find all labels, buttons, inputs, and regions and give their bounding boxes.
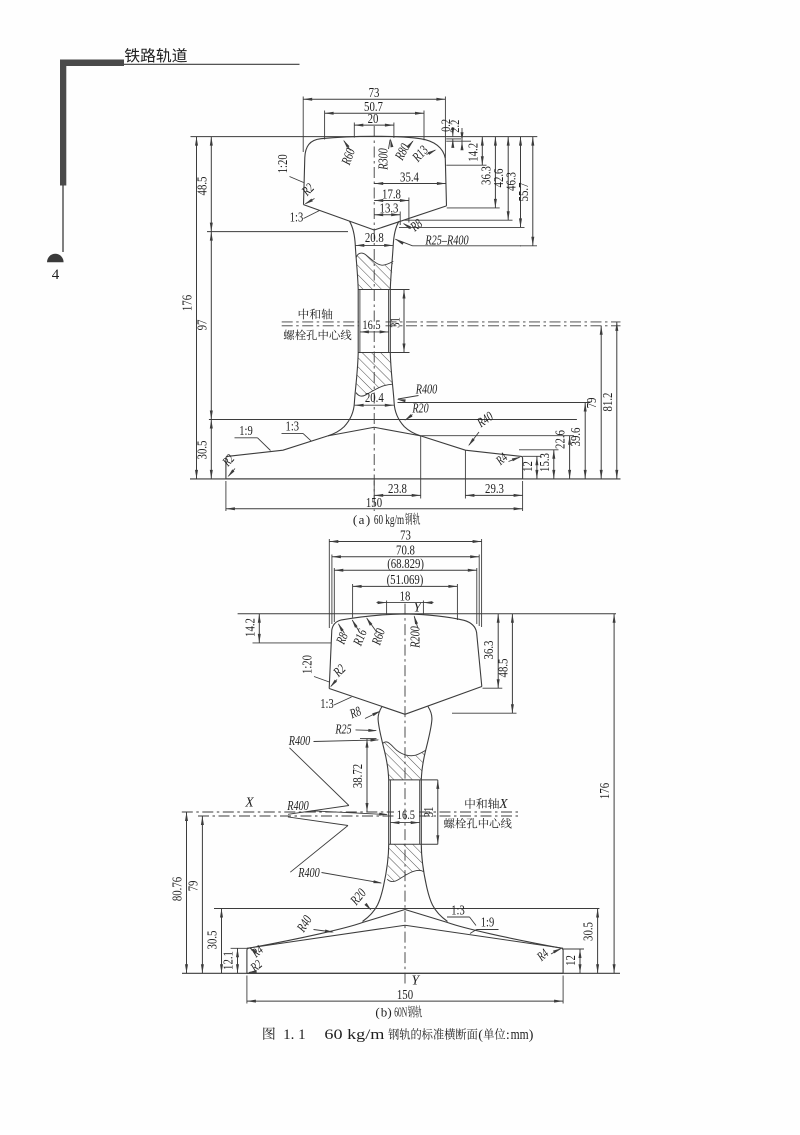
- dim a-39.6: [398, 402, 591, 404]
- svg-text:55.7: 55.7: [516, 182, 531, 201]
- header rule: [124, 63, 300, 65]
- svg-text:(: (: [478, 1028, 483, 1043]
- svg-text:79: 79: [185, 880, 200, 891]
- svg-text:1:3: 1:3: [290, 209, 304, 224]
- svg-text:150: 150: [397, 987, 413, 1002]
- rail-b foot 1:9 construction lines: [247, 925, 405, 948]
- dim b-79: [201, 816, 203, 973]
- svg-text:97: 97: [194, 319, 209, 330]
- svg-text:1:3: 1:3: [286, 419, 300, 434]
- svg-text:16.5: 16.5: [362, 317, 380, 332]
- svg-text:(: (: [353, 512, 357, 527]
- label 螺栓孔中心线 (b): [444, 818, 455, 828]
- rail-b bolt section inner verticals: [389, 780, 391, 844]
- svg-text:81.2: 81.2: [600, 393, 615, 412]
- svg-text:R25: R25: [335, 721, 352, 736]
- rail-a bolt section inner verticals: [359, 290, 361, 353]
- rail-a head-bottom reference line 48.5/97: [207, 231, 348, 233]
- svg-text::: :: [506, 1028, 510, 1043]
- rail-a head outline: [304, 136, 447, 206]
- dim a-15.3: [519, 449, 559, 451]
- dim b-73: [328, 539, 330, 628]
- dim b-18: [386, 601, 388, 615]
- svg-text:a: a: [359, 512, 365, 527]
- dim a-79: [600, 326, 602, 479]
- rail-b foot-top 30.5 reference line: [214, 908, 599, 910]
- dim a-81.2: [616, 322, 618, 479]
- svg-text:60 kg/m: 60 kg/m: [324, 1027, 384, 1043]
- rail-a bolt section chords: [358, 289, 409, 291]
- svg-text:30.5: 30.5: [205, 930, 220, 949]
- svg-text:18: 18: [400, 588, 411, 603]
- dim a-20.4: [355, 404, 394, 406]
- rail-a foot-top 30.5 reference line: [209, 419, 577, 421]
- rail-a top reference line: [191, 136, 538, 138]
- svg-text:(51.069): (51.069): [387, 572, 424, 587]
- dim a-14.2: [446, 164, 486, 166]
- svg-text:80.76: 80.76: [170, 877, 185, 902]
- svg-text:30.5: 30.5: [581, 922, 596, 941]
- svg-text:12: 12: [520, 461, 535, 472]
- rail-a lower hatch section: [356, 353, 393, 397]
- dim a-73: [302, 97, 304, 153]
- svg-text:X: X: [244, 795, 254, 810]
- header bar: [60, 60, 124, 67]
- dim a-22.6: [421, 435, 574, 437]
- figure caption 图1.1: [263, 1027, 275, 1040]
- header title 铁路轨道: [125, 48, 140, 62]
- rail-b bolt section chords: [389, 779, 438, 781]
- R400 zigzag connector lower: [288, 817, 348, 826]
- svg-text:23.8: 23.8: [388, 481, 407, 496]
- svg-text:48.5: 48.5: [495, 658, 510, 677]
- dim a-48.5: [210, 137, 212, 232]
- dim a-176: [196, 137, 198, 479]
- svg-text:R200: R200: [407, 626, 422, 649]
- dim b-12 right: [562, 948, 584, 950]
- rail-b upper hatch section: [383, 742, 426, 780]
- rail-b lower hatch section: [387, 844, 423, 881]
- svg-text:1:20: 1:20: [300, 655, 315, 674]
- rail-a foot apex construction lines 1:3: [328, 427, 374, 436]
- svg-text:R400: R400: [415, 382, 438, 397]
- rail-a head lower jaw lines 1:3: [304, 205, 375, 230]
- rail-b head outline: [329, 614, 482, 689]
- svg-text:X: X: [498, 796, 508, 811]
- svg-text:73: 73: [369, 85, 380, 100]
- rail-b web left edge: [363, 707, 389, 922]
- rail-b foot surface left: [247, 910, 405, 974]
- rail-b web right edge: [421, 707, 447, 922]
- dim a-0.2: [446, 138, 461, 140]
- header rule vertical thin: [62, 185, 64, 252]
- svg-text:R400: R400: [286, 798, 309, 813]
- svg-text:1:3: 1:3: [451, 903, 465, 918]
- svg-text:176: 176: [597, 783, 612, 799]
- svg-text:31: 31: [421, 807, 436, 818]
- dim a-20.8: [355, 244, 393, 246]
- rail-a web right edge: [390, 221, 420, 436]
- rail-a neutral axis centerline 中和轴: [282, 321, 359, 323]
- dim a-35.4: [374, 183, 446, 185]
- dim a-12: [523, 455, 542, 457]
- svg-text:30.5: 30.5: [194, 440, 209, 459]
- rail-a bolt hole centerline 螺栓孔中心线: [282, 325, 359, 327]
- label 螺栓孔中心线 (a): [284, 330, 295, 340]
- rail-b bottom reference line: [182, 972, 620, 974]
- dim b-176: [613, 614, 615, 974]
- dim b-150: [246, 976, 248, 1004]
- dim b-80.76: [186, 812, 188, 973]
- dim b-12.1: [231, 947, 249, 949]
- svg-text:1:9: 1:9: [481, 915, 495, 930]
- svg-text:15.3: 15.3: [537, 453, 552, 472]
- svg-text:14.2: 14.2: [242, 618, 257, 637]
- svg-text:12.1: 12.1: [221, 951, 236, 970]
- svg-text:13.3: 13.3: [380, 201, 399, 216]
- svg-text:22.6: 22.6: [553, 430, 568, 449]
- dim a-97: [210, 232, 212, 420]
- svg-text:b: b: [381, 1005, 388, 1020]
- rail-a web left edge: [328, 221, 358, 436]
- rail-b bolt hole centerline: [198, 815, 394, 817]
- svg-text:29.3: 29.3: [485, 481, 504, 496]
- svg-text:1:20: 1:20: [275, 154, 290, 173]
- dim a-23.8: [420, 436, 422, 499]
- dim b-(68.829): [333, 568, 335, 622]
- dim b-30.5 right: [597, 909, 599, 974]
- rail-a foot outline: [226, 436, 523, 479]
- dim a-2.2: [446, 140, 471, 142]
- svg-text:20.4: 20.4: [365, 390, 384, 405]
- dim a-55.7: [520, 245, 537, 247]
- rail-b neutral axis centerline X-X: [182, 811, 394, 813]
- rail-b head lower jaw lines 1:3: [329, 689, 405, 715]
- dim a-13.3: [399, 212, 401, 226]
- svg-text:36.3: 36.3: [481, 640, 496, 659]
- R400 zigzag connector upper: [290, 748, 349, 806]
- svg-text:R25–R400: R25–R400: [425, 232, 469, 247]
- svg-text:1:3: 1:3: [320, 696, 334, 711]
- dim b-38.72: [360, 738, 377, 740]
- svg-text:14.2: 14.2: [465, 143, 480, 162]
- dim b-31: [437, 780, 439, 844]
- svg-text:20.8: 20.8: [365, 230, 384, 245]
- svg-text:31: 31: [388, 317, 403, 328]
- dim a-30.5: [210, 420, 212, 479]
- svg-text:48.5: 48.5: [194, 176, 209, 195]
- svg-text:20: 20: [368, 111, 379, 126]
- svg-text:79: 79: [584, 397, 599, 408]
- dim a-31: [403, 290, 405, 353]
- svg-text:1:9: 1:9: [239, 423, 253, 438]
- svg-text:16.5: 16.5: [397, 807, 415, 822]
- svg-text:60N: 60N: [394, 1005, 407, 1020]
- dim a-42.6: [404, 219, 513, 221]
- rail-a bottom reference line: [190, 478, 621, 480]
- svg-text:176: 176: [180, 295, 195, 311]
- dim b-14.2: [253, 642, 332, 644]
- svg-text:35.4: 35.4: [400, 169, 419, 184]
- svg-text:R400: R400: [288, 733, 311, 748]
- dim a-150: [225, 481, 227, 511]
- dim b-(51.069): [352, 584, 354, 618]
- svg-text:): ): [366, 512, 370, 527]
- svg-text:2.2: 2.2: [447, 120, 462, 133]
- svg-text:60 kg/m: 60 kg/m: [374, 512, 405, 527]
- svg-text:mm: mm: [511, 1027, 529, 1043]
- dim a-20: [353, 123, 355, 138]
- dim a-17.8: [408, 198, 410, 223]
- page-number bullet: [47, 254, 64, 263]
- label 中和轴 (a): [299, 309, 309, 320]
- svg-text:R400: R400: [297, 865, 320, 880]
- svg-text:39.6: 39.6: [568, 427, 583, 446]
- svg-text:1. 1: 1. 1: [283, 1027, 306, 1043]
- dim a-50.7: [324, 111, 326, 140]
- svg-text:): ): [387, 1005, 391, 1020]
- svg-text:(: (: [375, 1005, 379, 1020]
- label 中和轴X (b): [465, 798, 475, 809]
- rail-b vertical axis centerline Y-Y: [404, 604, 406, 984]
- rail-b top reference line: [238, 613, 616, 615]
- dim b-48.5: [452, 712, 517, 714]
- dim a-29.3: [464, 450, 466, 498]
- dim a-46.3: [399, 226, 525, 228]
- svg-text:12: 12: [563, 955, 578, 966]
- rail-b foot surface right: [405, 910, 563, 974]
- dim a-36.3: [447, 207, 500, 209]
- dim b-70.8: [331, 555, 333, 625]
- dim b-30.5 left: [221, 909, 223, 974]
- svg-text:): ): [529, 1028, 534, 1043]
- dim b-36.3: [483, 687, 503, 689]
- svg-text:38.72: 38.72: [350, 764, 365, 788]
- svg-text:R300: R300: [376, 148, 391, 171]
- rail-a vertical axis centerline: [373, 126, 375, 511]
- svg-text:73: 73: [400, 527, 411, 542]
- svg-text:(68.829): (68.829): [387, 556, 424, 571]
- svg-text:4: 4: [52, 267, 60, 283]
- svg-text:17.8: 17.8: [382, 186, 401, 201]
- svg-text:150: 150: [366, 495, 382, 510]
- rail-b foot bottom edge: [247, 972, 563, 974]
- rail-a upper hatch section: [356, 253, 393, 289]
